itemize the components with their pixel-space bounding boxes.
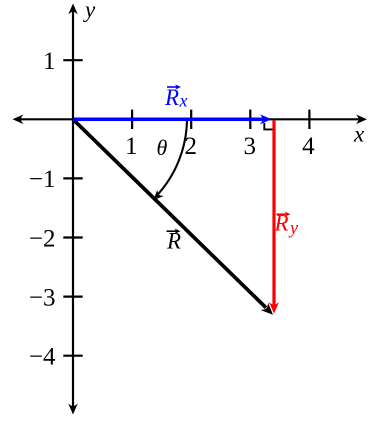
svg-text:−1: −1	[29, 166, 56, 193]
svg-text:2: 2	[184, 133, 197, 160]
svg-text:−4: −4	[29, 344, 56, 371]
svg-text:−3: −3	[29, 284, 56, 311]
svg-text:1: 1	[43, 48, 56, 75]
svg-text:1: 1	[125, 133, 138, 160]
svg-text:θ: θ	[157, 135, 168, 160]
svg-text:R: R	[166, 229, 181, 254]
svg-text:x: x	[179, 91, 188, 111]
svg-text:x: x	[353, 122, 365, 147]
svg-text:y: y	[83, 0, 96, 22]
svg-text:−2: −2	[29, 225, 56, 252]
svg-text:4: 4	[302, 133, 315, 160]
svg-text:y: y	[288, 218, 298, 238]
svg-text:3: 3	[244, 133, 257, 160]
